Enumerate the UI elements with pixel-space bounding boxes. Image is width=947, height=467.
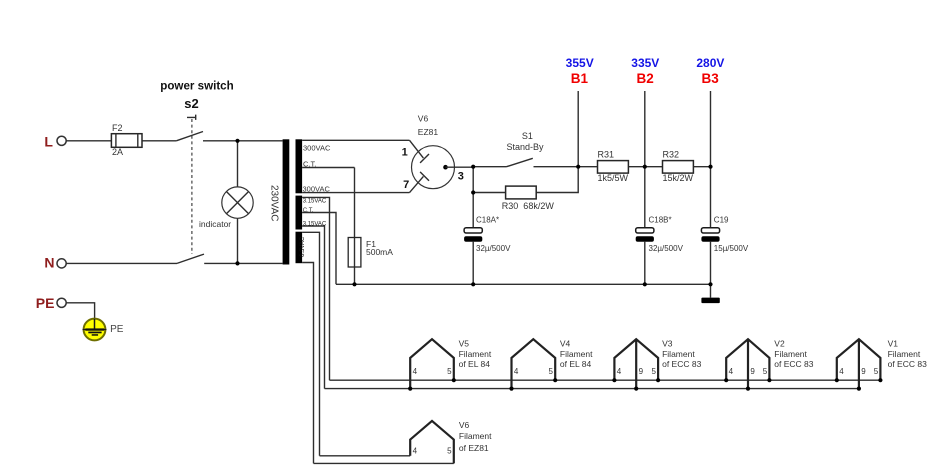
svg-text:C.T.: C.T.: [303, 208, 314, 214]
svg-text:V1: V1: [888, 339, 899, 349]
svg-text:9: 9: [750, 367, 755, 376]
svg-text:1: 1: [402, 147, 408, 159]
svg-text:300VAC: 300VAC: [303, 144, 331, 153]
svg-text:9: 9: [861, 367, 866, 376]
svg-text:6.3VAC: 6.3VAC: [300, 236, 306, 257]
svg-text:R32: R32: [663, 150, 680, 160]
svg-text:5: 5: [549, 367, 554, 376]
svg-text:5: 5: [447, 447, 452, 456]
svg-text:Filament: Filament: [662, 349, 695, 359]
svg-text:Filament: Filament: [888, 349, 921, 359]
svg-text:4: 4: [839, 367, 844, 376]
svg-text:4: 4: [514, 367, 519, 376]
svg-text:500mA: 500mA: [366, 247, 393, 257]
svg-text:335V: 335V: [631, 56, 659, 70]
svg-text:N: N: [44, 255, 54, 271]
svg-text:of ECC 83: of ECC 83: [662, 359, 701, 369]
svg-text:15µ/500V: 15µ/500V: [714, 244, 749, 253]
svg-text:5: 5: [651, 367, 656, 376]
svg-text:s2: s2: [184, 96, 198, 111]
svg-text:of EL 84: of EL 84: [459, 359, 491, 369]
svg-text:355V: 355V: [566, 56, 594, 70]
svg-text:32µ/500V: 32µ/500V: [649, 244, 684, 253]
svg-text:C18A*: C18A*: [476, 215, 499, 224]
svg-text:3.15VAC: 3.15VAC: [303, 199, 327, 205]
svg-text:of EL 84: of EL 84: [560, 359, 592, 369]
svg-text:V4: V4: [560, 339, 571, 349]
svg-text:1k5/5W: 1k5/5W: [598, 173, 629, 183]
svg-text:S1: S1: [522, 131, 533, 141]
svg-text:4: 4: [413, 447, 418, 456]
svg-text:9: 9: [639, 367, 644, 376]
svg-text:V6: V6: [459, 420, 470, 430]
svg-text:3.15VAC: 3.15VAC: [303, 222, 327, 228]
svg-text:F2: F2: [112, 123, 123, 133]
svg-text:C19: C19: [714, 215, 729, 224]
svg-text:C18B*: C18B*: [649, 215, 672, 224]
svg-text:3: 3: [458, 171, 464, 183]
svg-text:V2: V2: [774, 339, 785, 349]
svg-text:4: 4: [413, 367, 418, 376]
svg-text:EZ81: EZ81: [418, 127, 439, 137]
svg-text:R31: R31: [598, 150, 615, 160]
svg-text:V5: V5: [459, 339, 470, 349]
svg-text:B1: B1: [571, 71, 589, 86]
svg-text:5: 5: [763, 367, 768, 376]
svg-text:C.T.: C.T.: [303, 160, 316, 169]
svg-text:power switch: power switch: [160, 80, 233, 93]
svg-text:230VAC: 230VAC: [268, 185, 279, 222]
svg-text:B2: B2: [636, 71, 653, 86]
svg-text:300VAC: 300VAC: [303, 184, 331, 193]
svg-text:Stand-By: Stand-By: [506, 142, 544, 152]
svg-text:4: 4: [729, 367, 734, 376]
svg-text:Filament: Filament: [774, 349, 807, 359]
svg-text:Filament: Filament: [459, 431, 492, 441]
svg-text:V6: V6: [418, 113, 429, 123]
svg-text:R30 68k/2W: R30 68k/2W: [502, 201, 555, 211]
svg-text:4: 4: [617, 367, 622, 376]
svg-text:2A: 2A: [112, 147, 123, 157]
svg-text:7: 7: [403, 179, 409, 191]
svg-text:of ECC 83: of ECC 83: [774, 359, 813, 369]
svg-text:PE: PE: [110, 324, 124, 335]
svg-text:of EZ81: of EZ81: [459, 443, 489, 453]
svg-text:280V: 280V: [696, 56, 724, 70]
svg-text:5: 5: [874, 367, 879, 376]
svg-text:B3: B3: [701, 71, 719, 86]
svg-text:L: L: [44, 134, 53, 150]
svg-text:Filament: Filament: [459, 349, 492, 359]
svg-text:indicator: indicator: [199, 219, 231, 229]
svg-text:15k/2W: 15k/2W: [663, 173, 694, 183]
svg-text:5: 5: [447, 367, 452, 376]
svg-text:Filament: Filament: [560, 349, 593, 359]
svg-text:32µ/500V: 32µ/500V: [476, 244, 511, 253]
svg-text:PE: PE: [36, 295, 55, 311]
svg-text:V3: V3: [662, 339, 673, 349]
svg-text:of ECC 83: of ECC 83: [888, 359, 927, 369]
